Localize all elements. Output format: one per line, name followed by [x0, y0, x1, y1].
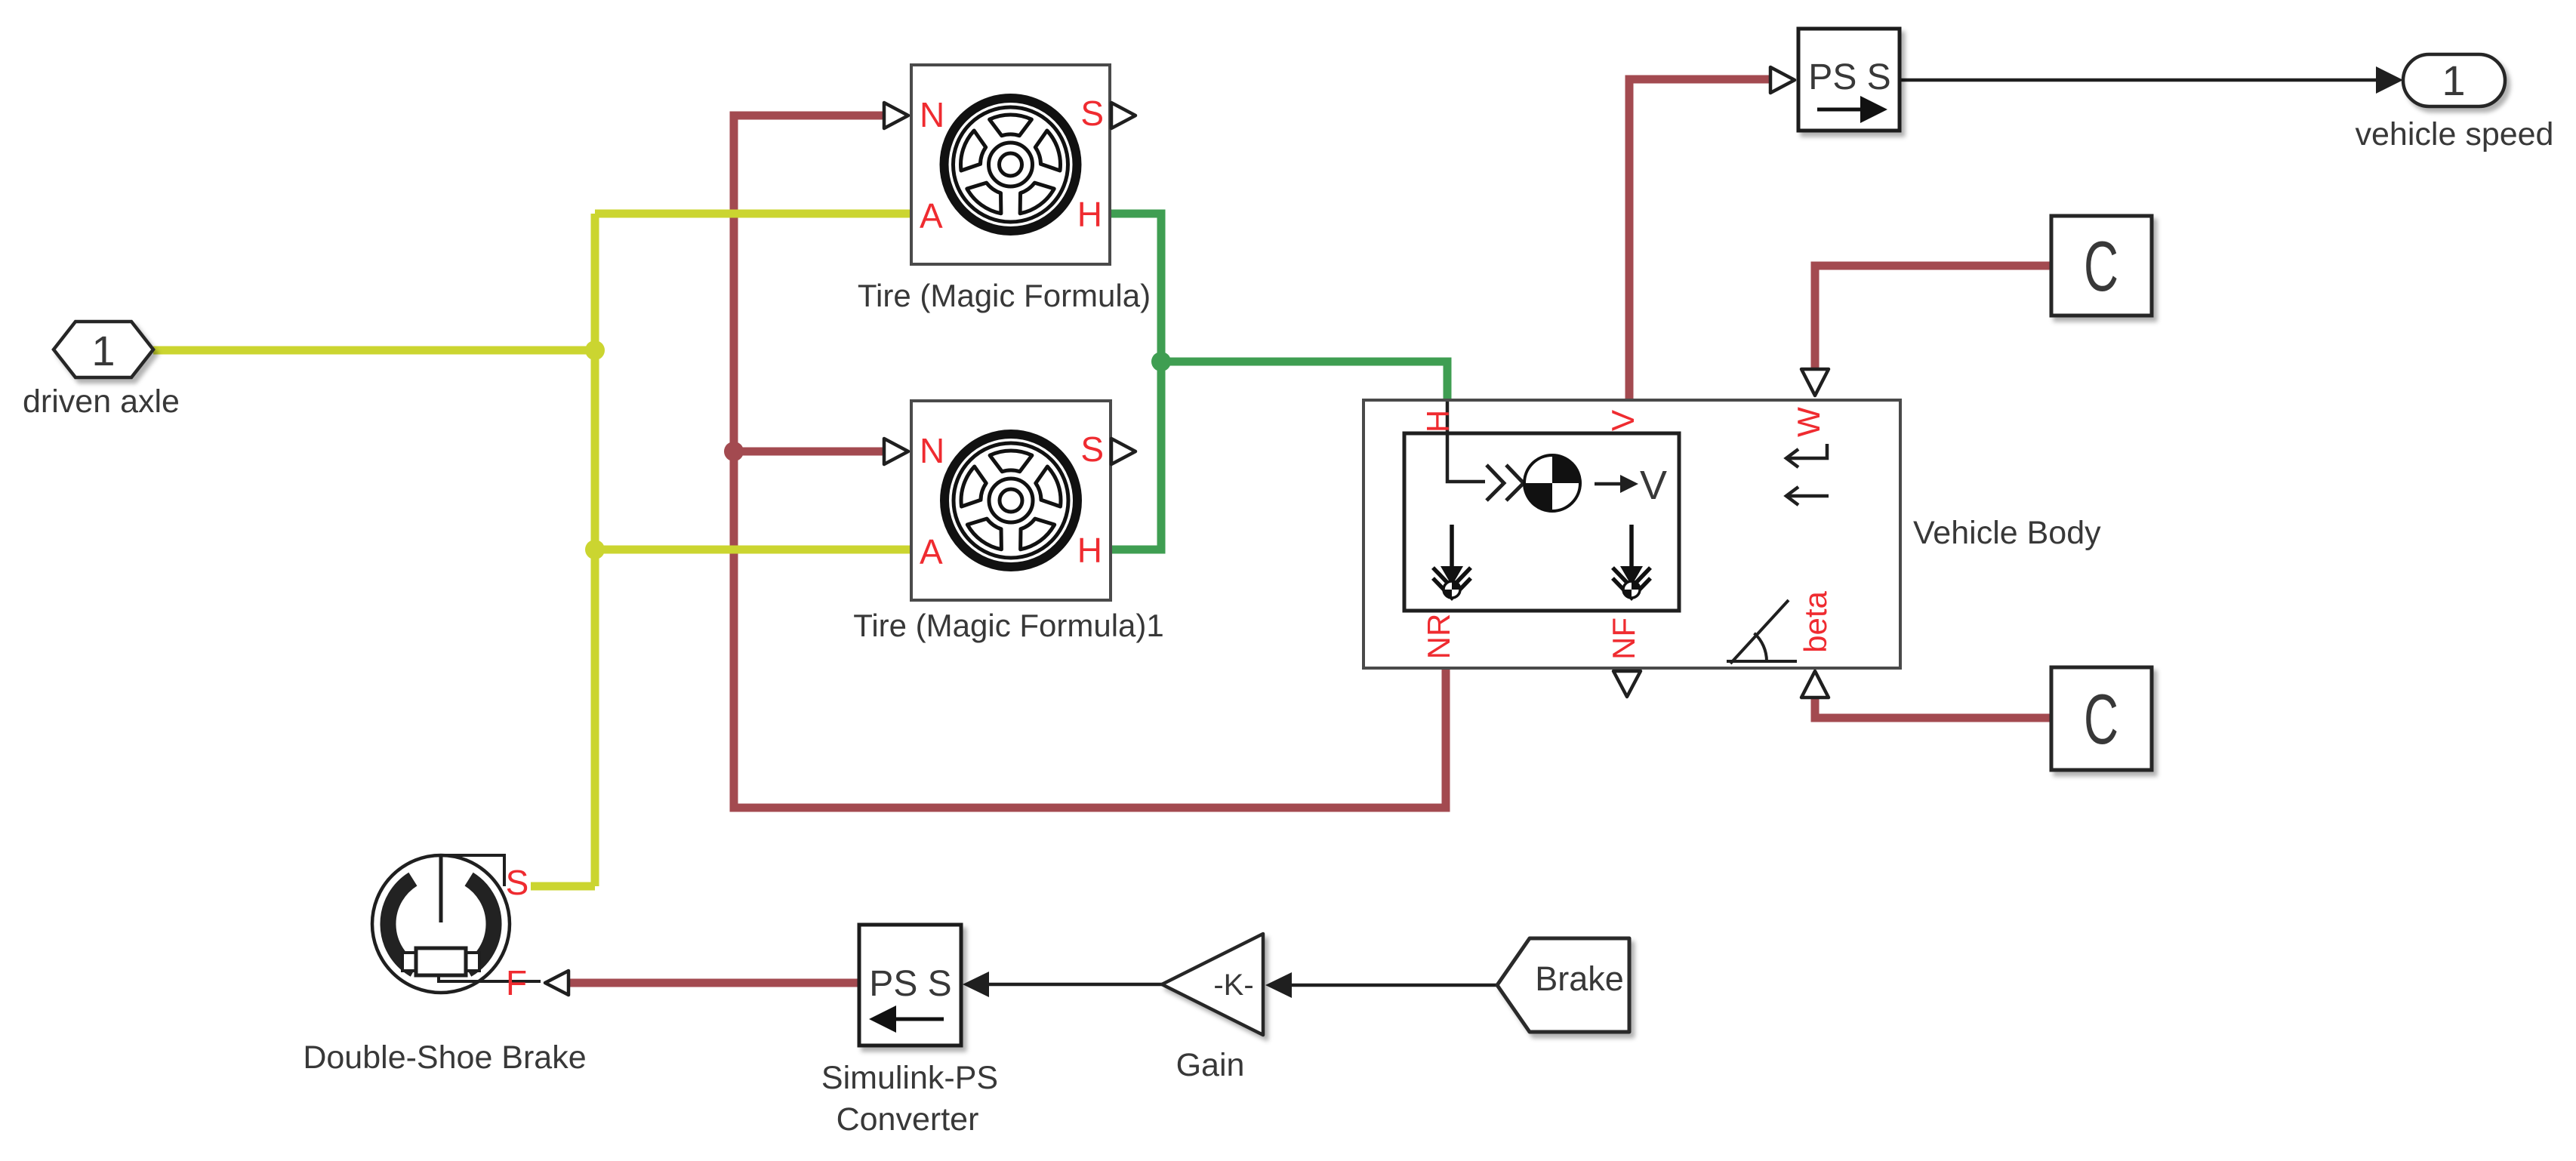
- S port stub: [441, 855, 504, 886]
- svg-text:Converter: Converter: [837, 1101, 979, 1138]
- wire: Simulink-PS converter to brake F port (dark red): [569, 979, 861, 987]
- junction yellow lower: [585, 540, 605, 559]
- svg-text:NF: NF: [1606, 617, 1641, 660]
- PS input triangle: [1770, 67, 1795, 93]
- inport Brake: [1497, 938, 1629, 1032]
- wire: V port to PS-Simulink converter (dark red): [1629, 79, 1770, 402]
- junction on N net: [724, 442, 744, 461]
- svg-text:vehicle speed: vehicle speed: [2356, 116, 2554, 152]
- svg-text:A: A: [920, 196, 943, 236]
- svg-text:C: C: [2084, 226, 2118, 306]
- chevrons into CG: [1487, 465, 1504, 500]
- svg-text:V: V: [1605, 410, 1641, 431]
- svg-text:NR: NR: [1421, 614, 1456, 660]
- V arrow inside: [1595, 482, 1625, 486]
- svg-text:Vehicle Body: Vehicle Body: [1913, 515, 2101, 551]
- arrowhead into Simulink-PS converter: [963, 972, 989, 997]
- arrowhead into gain: [1265, 972, 1292, 998]
- svg-text:N: N: [920, 95, 944, 134]
- force arrow front: [1613, 525, 1650, 598]
- wire: PS-Simulink to vehicle speed signal (black): [1900, 79, 2378, 82]
- wire: gain to Simulink-PS converter signal (black): [986, 983, 1163, 987]
- svg-text:PS S: PS S: [1808, 57, 1890, 97]
- brake shoes: [467, 879, 494, 970]
- arrowhead into vehicle speed outport: [2376, 66, 2403, 94]
- H internal line: [1447, 402, 1485, 482]
- svg-text:beta: beta: [1798, 590, 1833, 652]
- wire: tire H green net to vehicle body H: [1110, 214, 1447, 550]
- wire: C1 to W port (dark red): [1815, 266, 2051, 369]
- svg-text:A: A: [920, 532, 943, 571]
- tire1 S output arrow: [1111, 103, 1135, 128]
- wire: Brake inport to gain signal (black): [1292, 984, 1497, 987]
- svg-text:S: S: [1080, 94, 1104, 133]
- block PS-Simulink Converter (top): [1770, 29, 1900, 131]
- block C1 connection port: [2051, 216, 2152, 316]
- svg-text:N: N: [920, 431, 944, 470]
- svg-text:V: V: [1640, 463, 1667, 508]
- wire: driven axle yellow net: [153, 214, 911, 886]
- wheel cylinder: [402, 953, 416, 971]
- svg-text:Double-Shoe Brake: Double-Shoe Brake: [303, 1039, 586, 1076]
- svg-text:S: S: [1080, 430, 1104, 469]
- tire1 N input arrow: [884, 103, 908, 128]
- W input port triangle: [1801, 369, 1829, 396]
- svg-text:Tire (Magic Formula)1: Tire (Magic Formula)1: [853, 608, 1164, 643]
- CG symbol: [1524, 455, 1580, 511]
- block Tire (Magic Formula)1: [853, 401, 1164, 643]
- svg-text:driven axle: driven axle: [23, 383, 180, 420]
- block Simulink-PS Converter: [821, 925, 998, 1138]
- outport 1 vehicle speed: [2356, 54, 2554, 152]
- F input triangle: [545, 971, 569, 995]
- junction green: [1151, 352, 1171, 371]
- block C2 connection port: [2051, 667, 2152, 770]
- force arrow rear: [1433, 525, 1471, 598]
- block Vehicle Body: [1363, 369, 2101, 698]
- junction yellow upper: [585, 340, 605, 360]
- svg-text:H: H: [1420, 410, 1456, 433]
- svg-text:Simulink-PS: Simulink-PS: [821, 1060, 998, 1096]
- svg-text:1: 1: [2442, 57, 2465, 104]
- actuation rod: [439, 855, 443, 922]
- block Tire (Magic Formula): [858, 65, 1151, 313]
- beta angle icon: [1727, 660, 1797, 663]
- wire: N normal-force net (dark red) NR port to tire N ports: [734, 115, 1446, 808]
- inport 1 driven axle: [23, 322, 180, 420]
- NF output port triangle: [1613, 671, 1641, 697]
- svg-text:W: W: [1791, 407, 1826, 437]
- svg-text:H: H: [1077, 531, 1102, 570]
- tire2 S output arrow: [1111, 439, 1135, 464]
- F port line: [439, 975, 541, 981]
- svg-text:H: H: [1077, 195, 1102, 234]
- block Gain: [1162, 934, 1263, 1083]
- svg-text:-K-: -K-: [1213, 969, 1253, 1002]
- block Double-Shoe Brake: [303, 855, 586, 1076]
- W arrows inside: [1786, 444, 1827, 458]
- tire2 N input arrow: [884, 439, 908, 464]
- wire: C2 to beta port (dark red): [1815, 696, 2051, 718]
- svg-text:PS S: PS S: [869, 964, 951, 1004]
- svg-text:S: S: [506, 863, 529, 902]
- svg-text:F: F: [506, 963, 527, 1002]
- svg-text:Gain: Gain: [1176, 1047, 1245, 1083]
- svg-text:C: C: [2084, 679, 2118, 759]
- svg-text:Tire (Magic Formula): Tire (Magic Formula): [858, 278, 1151, 313]
- beta input port triangle: [1801, 671, 1829, 698]
- svg-text:1: 1: [91, 327, 115, 374]
- svg-text:Brake: Brake: [1535, 959, 1624, 998]
